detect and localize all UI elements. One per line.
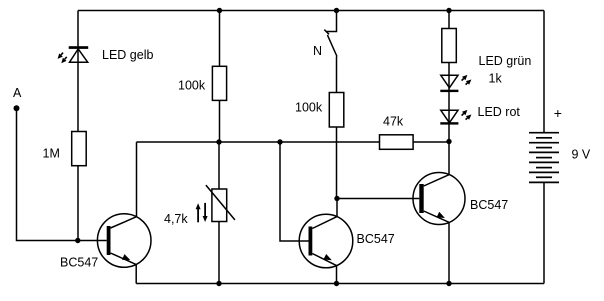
svg-text:1k: 1k xyxy=(489,72,503,86)
svg-text:BC547: BC547 xyxy=(60,256,98,270)
svg-text:100k: 100k xyxy=(295,101,323,115)
svg-text:LED gelb: LED gelb xyxy=(102,48,153,62)
svg-text:A: A xyxy=(13,86,22,100)
svg-text:+: + xyxy=(554,105,562,121)
svg-text:100k: 100k xyxy=(178,79,206,93)
svg-text:LED rot: LED rot xyxy=(478,105,521,119)
svg-text:LED grün: LED grün xyxy=(479,54,532,68)
svg-text:9 V: 9 V xyxy=(572,148,591,162)
svg-text:4,7k: 4,7k xyxy=(164,212,188,226)
svg-text:BC547: BC547 xyxy=(357,232,395,246)
svg-text:47k: 47k xyxy=(383,115,404,129)
svg-text:N: N xyxy=(313,44,322,58)
svg-text:BC547: BC547 xyxy=(470,198,508,212)
svg-text:1M: 1M xyxy=(43,147,60,161)
